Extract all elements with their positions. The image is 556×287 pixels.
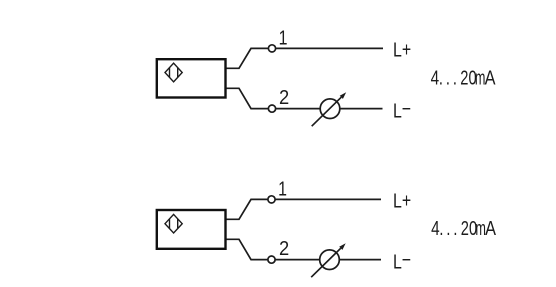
svg-text:A: A (485, 216, 496, 239)
svg-text:.: . (446, 66, 450, 89)
meter arrow (312, 97, 342, 126)
svg-text:L+: L+ (393, 37, 411, 60)
sensor symbol (proximity diamond) (165, 63, 182, 82)
svg-text:.: . (439, 217, 443, 240)
svg-text:.: . (453, 66, 457, 89)
wire pin2 branch (stub, diagonal, horizontal to L-) (226, 239, 382, 259)
meter arrow (311, 248, 341, 277)
terminal 1 (268, 45, 275, 52)
svg-text:4: 4 (431, 66, 440, 89)
svg-text:1: 1 (279, 25, 288, 48)
terminal 2 (268, 256, 275, 263)
terminal 2 (268, 105, 275, 112)
meter M2 (load / current indicator) (320, 250, 340, 270)
terminal 1 (268, 196, 275, 203)
svg-text:.: . (453, 217, 457, 240)
svg-text:.: . (439, 66, 443, 89)
value label 4...20mA (431, 216, 496, 240)
svg-text:1: 1 (278, 176, 287, 199)
wire pin2 branch (stub, diagonal, horizontal to L-) (226, 88, 383, 108)
svg-text:2: 2 (279, 237, 289, 260)
svg-text:20: 20 (460, 66, 476, 89)
sensor body U2 (157, 210, 226, 249)
svg-text:−: − (402, 97, 411, 120)
svg-text:L: L (393, 249, 402, 272)
svg-text:2: 2 (279, 86, 289, 109)
meter M1 (load / current indicator) (320, 99, 340, 119)
svg-text:A: A (485, 66, 496, 89)
value label 4...20mA (431, 66, 496, 90)
svg-text:20: 20 (461, 217, 477, 240)
svg-text:L+: L+ (393, 188, 411, 211)
wire pin1 branch (stub, diagonal, horizontal to L+) (226, 199, 382, 219)
svg-text:−: − (402, 248, 411, 271)
svg-text:L: L (393, 98, 402, 121)
svg-text:4: 4 (431, 217, 440, 240)
sensor symbol (proximity diamond) (165, 214, 182, 233)
svg-text:.: . (446, 217, 450, 240)
wire pin1 branch (stub, diagonal, horizontal to L+) (226, 48, 384, 68)
sensor body U1 (157, 59, 226, 97)
